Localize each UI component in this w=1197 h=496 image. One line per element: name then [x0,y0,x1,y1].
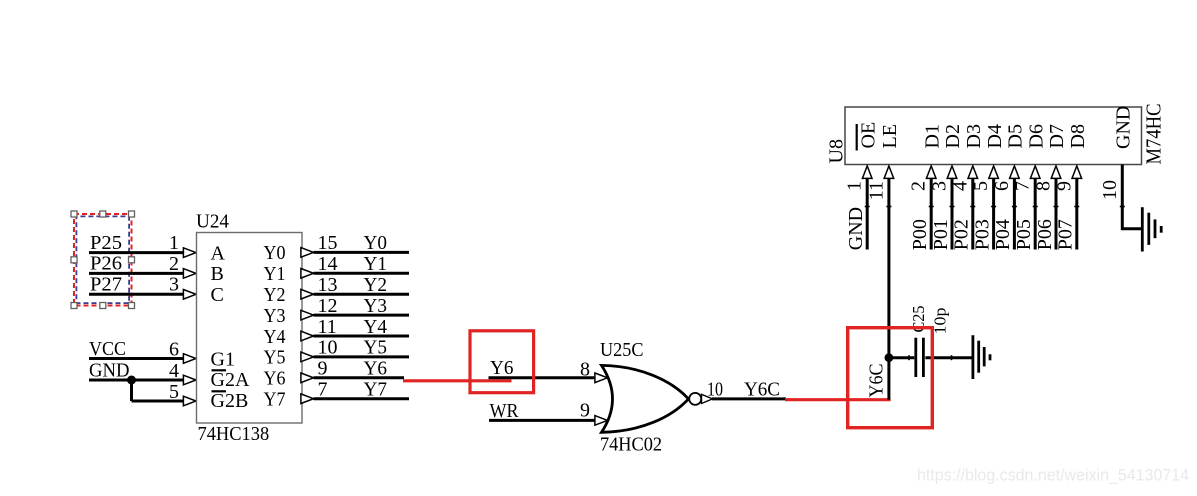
svg-text:D5: D5 [1005,124,1027,148]
selection box (red/blue dashed) around P25-P27 net labels [71,211,135,309]
svg-text:C: C [211,284,224,306]
svg-text:GND: GND [89,360,130,382]
pin 9 arrowhead (U25C input) [595,416,608,426]
wire U8 pin 1 stub [866,179,869,250]
svg-text:Y6: Y6 [490,357,514,379]
wire Y1 output stub [314,272,410,275]
pin 7 arrowhead (Y7 output) [301,394,314,404]
svg-text:Y5: Y5 [264,347,286,369]
svg-text:Y6: Y6 [264,368,286,390]
pin 14 arrowhead (Y1 output) [301,269,314,279]
U8 pin name OE with overline [857,122,880,151]
svg-text:1: 1 [844,181,866,191]
svg-text:Y0: Y0 [264,242,286,264]
svg-text:10: 10 [1099,180,1121,200]
wire Y2 output stub [314,293,410,296]
pin 11 arrowhead (Y4 output) [301,331,314,341]
ground symbol at U8 pin 10 [1142,207,1161,251]
red highlight box around Y6C node [848,328,933,428]
wire VCC [89,357,184,360]
svg-text:P25: P25 [90,232,122,254]
svg-text:6: 6 [991,181,1013,191]
junction dot Y6C node [885,353,894,362]
wire U8 pin 3 stub [951,179,954,250]
pin 10 arrowhead (U25C output) [702,394,713,403]
svg-text:VCC: VCC [89,338,126,360]
ground symbol at C25 [973,335,990,379]
red highlight box around Y6 label [470,331,534,393]
U8 pin name D1 [921,124,943,148]
svg-text:D8: D8 [1067,124,1089,148]
svg-text:Y2: Y2 [264,284,286,306]
U24 pin name G2B with overline [211,390,249,412]
svg-text:LE: LE [879,124,901,148]
svg-text:P27: P27 [90,274,122,296]
wire capacitor to ground [925,356,971,359]
svg-text:P05: P05 [1013,219,1035,250]
U8 pin name D4 [984,124,1006,148]
svg-text:Y6C: Y6C [744,378,780,400]
svg-text:GND: GND [845,207,867,250]
pin 9 wire tick [1074,206,1079,208]
svg-text:P04: P04 [992,219,1014,250]
wire U8 pin 9 stub [1075,179,1078,250]
pin 7 arrowhead (U8 D6) [1030,166,1040,178]
pin 15 arrowhead (Y0 output) [301,248,314,258]
svg-text:8: 8 [580,359,590,381]
svg-text:9: 9 [1053,181,1075,191]
wire Y7 output stub [314,397,410,400]
wire P27 [89,293,184,296]
svg-text:GND: GND [1113,106,1135,149]
pin 3 arrowhead (U24 C) [183,290,196,300]
wire WR to gate input 9 [489,419,595,422]
pin 11 arrowhead (U8 LE) [884,166,894,178]
svg-text:74HC02: 74HC02 [600,434,662,456]
decoder U24 body [197,233,303,424]
svg-text:D2: D2 [942,124,964,148]
U8 pin name D8 [1067,124,1089,148]
pin 10 wire tick [1120,206,1125,208]
svg-text:11: 11 [865,181,887,200]
svg-text:U25C: U25C [600,339,644,361]
svg-text:P06: P06 [1034,219,1056,250]
svg-text:WR: WR [490,400,520,422]
svg-text:P00: P00 [909,219,931,250]
pin 2 arrowhead (U24 B) [183,269,196,279]
pin 4 wire tick [970,206,975,208]
pin 8 wire tick [1054,206,1059,208]
svg-text:6: 6 [169,338,179,360]
pin 1 wire tick [865,206,870,208]
inversion bubble on U25C output [689,393,701,405]
pin 13 arrowhead (Y2 output) [301,289,314,299]
pin 8 arrowhead (U8 D7) [1051,166,1061,178]
pin 6 arrowhead (U24 G1) [183,354,196,364]
pin 5 arrowhead (U8 D4) [989,166,999,178]
U8 pin name D2 [942,124,964,148]
pin 3 arrowhead (U8 D2) [947,166,957,178]
U8 pin name D3 [963,124,985,148]
svg-text:U24: U24 [196,211,229,233]
svg-text:D7: D7 [1046,124,1068,148]
svg-text:OE: OE [857,122,879,149]
wire Y6 to gate input 8 [489,376,596,379]
capacitor C25 pin tick left [908,355,910,360]
wire P26 [89,272,184,275]
wire Y4 output stub [314,335,410,338]
svg-text:10: 10 [707,379,723,401]
wire Y6 output stub [314,376,405,379]
pin 5 wire tick [991,206,996,208]
svg-text:1: 1 [169,232,179,254]
svg-text:Y1: Y1 [264,263,286,285]
U8 pin name D5 [1005,124,1027,148]
pin 4 arrowhead (U8 D3) [968,166,978,178]
svg-text:5: 5 [169,381,179,403]
wire P25 [89,251,184,254]
wire Y0 output stub [314,251,410,254]
capacitor C25 plates [916,338,924,377]
svg-text:https://blog.csdn.net/weixin_5: https://blog.csdn.net/weixin_54130714 [917,467,1189,485]
wire U8 pin 2 stub [930,179,933,250]
wire U8 pin 10 to ground [1122,165,1142,231]
U24 pin name G2A with overline [211,369,250,391]
pin 6 arrowhead (U8 D5) [1010,166,1020,178]
svg-text:G2A: G2A [211,369,250,391]
pin 2 arrowhead (U8 D1) [926,166,936,178]
svg-text:2: 2 [908,181,930,191]
svg-text:P02: P02 [951,219,973,250]
wire node to capacitor C25 [889,356,914,359]
pin 7 wire tick [1033,206,1038,208]
svg-text:4: 4 [949,181,971,191]
svg-text:4: 4 [169,360,179,382]
pin 9 arrowhead (U8 D8) [1072,166,1082,178]
pin 1 arrowhead (U8 OE) [862,166,872,178]
svg-text:D3: D3 [963,124,985,148]
pin 2 wire tick [929,206,934,208]
U8 pin name LE [879,124,901,148]
wire U8 pin 4 stub [971,179,974,250]
wire Y3 output stub [314,314,410,317]
svg-text:9: 9 [580,400,590,422]
svg-text:D1: D1 [921,124,943,148]
capacitor C25 pin tick right [951,355,953,360]
svg-text:3: 3 [169,274,179,296]
wire GND [89,379,184,382]
pin 4 arrowhead (U24 G2A) [183,375,196,385]
svg-text:Y7: Y7 [264,389,286,411]
latch U8 body [845,107,1142,165]
svg-text:74HC138: 74HC138 [198,423,270,445]
pin 10 arrowhead (Y5 output) [301,352,314,362]
wire U8 pin 7 stub [1034,179,1037,250]
svg-text:7: 7 [1012,181,1034,191]
U8 pin name D6 [1025,124,1047,148]
svg-text:5: 5 [970,181,992,191]
pin 1 arrowhead (U24 A) [183,248,196,258]
svg-text:Y3: Y3 [264,305,286,327]
wire Y5 output stub [314,355,410,358]
wire U8 pin 6 stub [1013,179,1016,250]
wire Y6C vertical riser to U8 pin 11 [887,178,890,400]
svg-text:8: 8 [1033,181,1055,191]
svg-text:P01: P01 [930,219,952,250]
pin 5 arrowhead (U24 G2B) [183,396,196,406]
pin 3 wire tick [950,206,955,208]
wire U25C output [712,397,786,400]
wire GND branch vertical [130,380,133,401]
pin 9 arrowhead (Y6 output) [301,373,314,383]
svg-text:U8: U8 [826,139,848,163]
svg-text:Y4: Y4 [264,326,286,348]
svg-text:3: 3 [929,181,951,191]
svg-text:P07: P07 [1055,219,1077,250]
red highlight wire Y6C to latch [785,398,891,401]
svg-text:M74HC: M74HC [1141,104,1165,165]
U8 pin name D7 [1046,124,1068,148]
wire U8 pin 8 stub [1055,179,1058,250]
pin 12 arrowhead (Y3 output) [301,310,314,320]
red highlight wire from Y6 output [403,379,512,382]
NOR gate U25C body [602,365,689,432]
svg-text:2: 2 [169,253,179,275]
svg-text:G2B: G2B [211,390,249,412]
svg-text:D4: D4 [984,124,1006,148]
svg-text:P03: P03 [971,219,993,250]
pin 8 arrowhead (U25C input) [595,373,608,383]
pin 6 wire tick [1012,206,1017,208]
wire GND branch horizontal to pin 5 [132,400,185,403]
pin 11 wire tick [886,206,891,208]
svg-text:B: B [211,263,224,285]
svg-text:A: A [211,242,226,264]
svg-text:G1: G1 [211,348,235,370]
svg-text:P26: P26 [90,253,122,275]
svg-text:D6: D6 [1025,124,1047,148]
wire U8 pin 5 stub [992,179,995,250]
svg-text:Y6C: Y6C [866,364,888,398]
junction dot on GND wire [127,376,136,385]
